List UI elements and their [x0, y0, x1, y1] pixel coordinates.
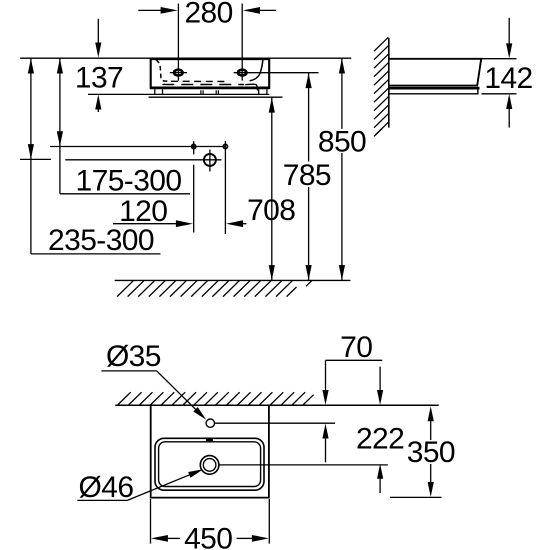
svg-text:142: 142	[484, 62, 532, 95]
svg-text:280: 280	[184, 0, 232, 30]
svg-text:222: 222	[356, 422, 404, 455]
svg-text:137: 137	[75, 62, 123, 95]
svg-text:235-300: 235-300	[48, 224, 154, 257]
svg-text:175-300: 175-300	[76, 164, 182, 197]
svg-text:70: 70	[340, 331, 372, 364]
svg-text:785: 785	[283, 159, 331, 192]
svg-text:120: 120	[119, 195, 167, 228]
svg-text:850: 850	[318, 125, 366, 158]
svg-text:Ø35: Ø35	[106, 340, 161, 373]
svg-text:Ø46: Ø46	[79, 471, 134, 504]
svg-text:450: 450	[184, 523, 232, 550]
